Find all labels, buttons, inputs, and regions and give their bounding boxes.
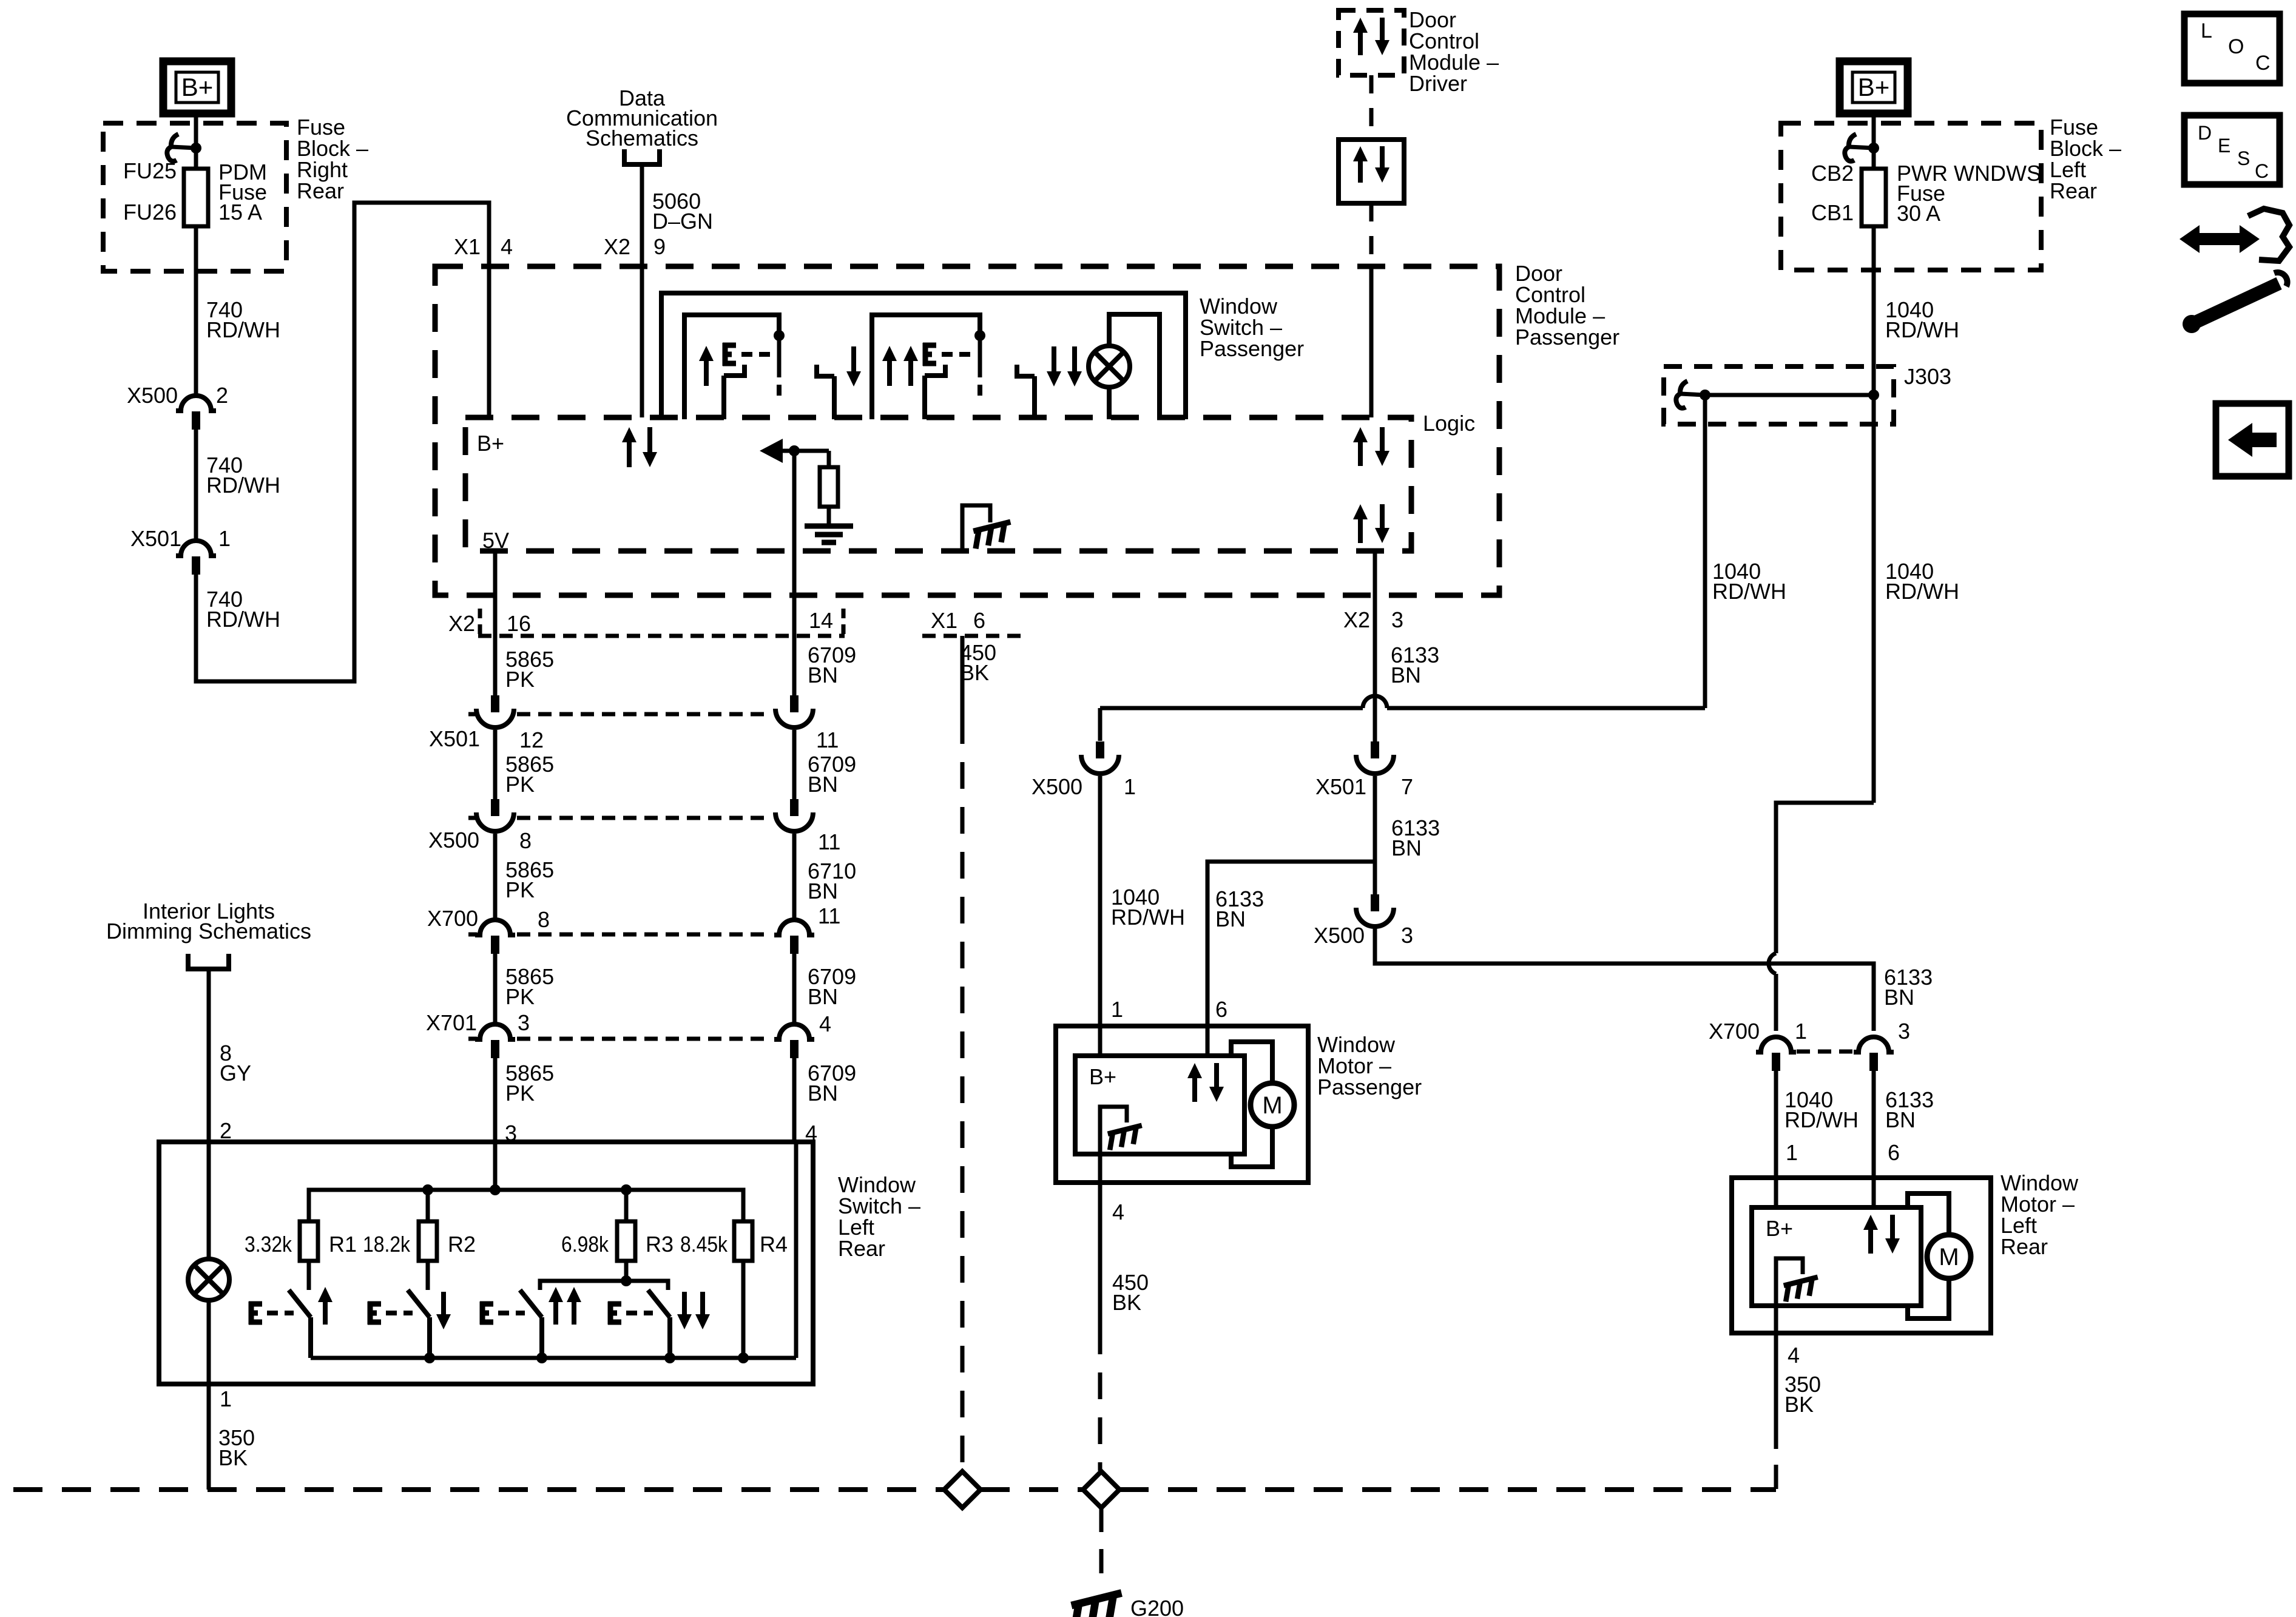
door control module - passenger dashed box bbox=[435, 266, 1499, 595]
connector X700 pin 1 right bbox=[1756, 1037, 1796, 1052]
svg-text:Driver: Driver bbox=[1409, 71, 1467, 96]
resistor top bus bbox=[309, 1190, 743, 1221]
ground G200 bbox=[1069, 1593, 1127, 1617]
dashed wire splice to G200 ground bbox=[1099, 1508, 1104, 1585]
svg-text:X501: X501 bbox=[429, 726, 480, 751]
wire X700-3 to motor pin 6 bbox=[1872, 1071, 1876, 1178]
blade double-down switch bbox=[1017, 365, 1035, 376]
J303 splice wire bbox=[1705, 393, 1874, 397]
R1 bottom stub bbox=[307, 1261, 311, 1290]
J303 hook bbox=[1681, 394, 1705, 395]
svg-text:Rear: Rear bbox=[2050, 178, 2097, 203]
fuse hook FU25/FU26 bbox=[172, 147, 196, 148]
wire logic junction down to pin 14 bbox=[792, 451, 797, 695]
svg-text:D–GN: D–GN bbox=[652, 209, 713, 234]
wire pin 1 350 BK to ground rail bbox=[207, 1384, 211, 1490]
blade double-up switch bbox=[925, 365, 945, 376]
resistor R3 bbox=[624, 1190, 629, 1221]
wire X500-11 to X700-11 bbox=[792, 834, 797, 919]
svg-text:X500: X500 bbox=[1032, 774, 1082, 799]
svg-text:6: 6 bbox=[973, 608, 985, 633]
driver interface solid box bbox=[1339, 140, 1404, 203]
lamp feed wire bbox=[207, 1142, 211, 1259]
logic pull-up resistor with arrow bbox=[760, 439, 783, 463]
window switch - left rear box bbox=[159, 1142, 813, 1384]
svg-text:CB1: CB1 bbox=[1811, 200, 1854, 225]
switch up sub-box bbox=[684, 315, 779, 419]
fuse PDM 15A bbox=[184, 169, 208, 226]
blade down switch bbox=[817, 365, 834, 376]
svg-text:GY: GY bbox=[220, 1061, 251, 1085]
switch up group left rear bbox=[289, 1290, 311, 1317]
double up arrows passenger switch bbox=[887, 358, 892, 386]
circuit breaker PWR WNDWS 30A bbox=[1862, 169, 1886, 226]
connector X500 pin 8 bbox=[491, 799, 499, 816]
svg-text:PK: PK bbox=[505, 667, 535, 692]
switch double-up group left rear bbox=[520, 1290, 542, 1317]
svg-text:CB2: CB2 bbox=[1811, 161, 1854, 186]
wire fuse to X500 pin 2 bbox=[194, 226, 198, 394]
svg-text:PK: PK bbox=[505, 1081, 535, 1106]
chassis ground motor passenger bbox=[1100, 1107, 1127, 1154]
wire X700-8 to X701-3 bbox=[493, 954, 498, 1023]
svg-text:1: 1 bbox=[220, 1386, 232, 1411]
svg-text:Schematics: Schematics bbox=[586, 126, 698, 150]
svg-text:X500: X500 bbox=[1314, 923, 1365, 948]
connector row X700 right dashes bbox=[1797, 1050, 1853, 1054]
svg-text:11: 11 bbox=[818, 903, 840, 928]
svg-text:M: M bbox=[1939, 1244, 1959, 1271]
svg-text:PK: PK bbox=[505, 877, 535, 902]
svg-text:Rear: Rear bbox=[297, 178, 344, 203]
svg-text:16: 16 bbox=[507, 611, 531, 636]
svg-text:C: C bbox=[2255, 160, 2269, 182]
motor loop passenger bbox=[1231, 1042, 1272, 1083]
wire logic to X2-3 (6133) bbox=[1373, 551, 1377, 741]
DESC icon box bbox=[2184, 115, 2280, 184]
svg-text:RD/WH: RD/WH bbox=[1784, 1107, 1859, 1132]
junction J303 dashed box bbox=[1664, 366, 1894, 424]
connector row X700 dashes bbox=[468, 933, 477, 937]
wire J303 main jog left bbox=[1776, 803, 1874, 953]
svg-text:X2: X2 bbox=[1343, 607, 1370, 632]
svg-text:3: 3 bbox=[1898, 1019, 1910, 1044]
window switch - passenger box bbox=[661, 293, 1186, 419]
svg-text:X1: X1 bbox=[931, 608, 957, 633]
svg-text:RD/WH: RD/WH bbox=[206, 607, 280, 632]
dashed wire interface to module bbox=[1369, 203, 1374, 267]
svg-text:3: 3 bbox=[1391, 607, 1403, 632]
module X2 connector row dashes bbox=[478, 634, 845, 638]
connector row X501 dashes bbox=[468, 712, 477, 717]
svg-text:O: O bbox=[2228, 35, 2244, 58]
svg-text:RD/WH: RD/WH bbox=[206, 473, 280, 498]
svg-text:R4: R4 bbox=[760, 1232, 788, 1257]
switch double-down group left rear bbox=[648, 1290, 670, 1317]
wire X700-1 to motor pin 1 bbox=[1774, 1071, 1778, 1178]
svg-text:RD/WH: RD/WH bbox=[206, 317, 280, 342]
connector row X500 dashes bbox=[468, 816, 477, 820]
wire X501-11 to X500-11 bbox=[792, 730, 797, 799]
motor relay inner box bbox=[1075, 1056, 1244, 1154]
fuse block - left rear dashed box bbox=[1781, 123, 2041, 270]
svg-text:X1: X1 bbox=[454, 234, 481, 259]
svg-text:1: 1 bbox=[1795, 1019, 1807, 1044]
wire X501-7 down to junction bbox=[1373, 776, 1377, 862]
up/down arrows in driver box bbox=[1358, 30, 1363, 55]
dashed wire 350 BK to rail bbox=[1774, 1425, 1778, 1490]
connector X701 pin 3 bbox=[475, 1024, 515, 1039]
up/down arrows motor passenger bbox=[1192, 1075, 1197, 1102]
connector X500 pin 1 bbox=[1096, 741, 1104, 758]
wire 8 GY to switch pin 2 bbox=[207, 969, 211, 1142]
svg-text:3: 3 bbox=[518, 1010, 530, 1035]
resistor R4 bbox=[734, 1221, 752, 1261]
svg-text:BN: BN bbox=[1391, 663, 1421, 687]
svg-text:1: 1 bbox=[1111, 997, 1123, 1022]
svg-text:X2: X2 bbox=[448, 611, 475, 636]
svg-text:X500: X500 bbox=[127, 383, 178, 408]
svg-text:BN: BN bbox=[1391, 836, 1422, 860]
svg-text:RD/WH: RD/WH bbox=[1111, 905, 1185, 930]
up/down arrows logic driver lower bbox=[1358, 516, 1363, 543]
wire junction to X500-3 bbox=[1373, 862, 1377, 897]
connector X500 pin 11 bbox=[790, 799, 799, 816]
svg-text:BN: BN bbox=[808, 1081, 838, 1106]
svg-text:S: S bbox=[2237, 147, 2250, 169]
svg-text:X700: X700 bbox=[427, 906, 478, 931]
svg-text:X500: X500 bbox=[428, 828, 479, 852]
motor loop left rear bbox=[1908, 1193, 1949, 1235]
svg-text:8: 8 bbox=[538, 907, 550, 932]
R3 sub-bus to double switches bbox=[624, 1261, 629, 1279]
hop arc 1040 over 6133 bbox=[1769, 953, 1776, 974]
svg-text:FU25: FU25 bbox=[123, 158, 177, 183]
svg-text:2: 2 bbox=[220, 1118, 232, 1143]
wire X1-6 450 BK solid part bbox=[961, 636, 965, 717]
wire pin 6 inside bbox=[1206, 1026, 1210, 1056]
wire pin 1 inside bbox=[1098, 1026, 1102, 1056]
svg-text:X501: X501 bbox=[1315, 774, 1366, 799]
wire X500-2 to X501-1 bbox=[194, 430, 198, 539]
up/down arrows logic driver upper bbox=[1358, 439, 1363, 466]
bracket data communication bbox=[624, 149, 660, 164]
svg-text:PK: PK bbox=[505, 984, 535, 1009]
svg-text:RD/WH: RD/WH bbox=[1885, 579, 1959, 604]
motor relay inner box left rear bbox=[1752, 1207, 1921, 1306]
svg-text:4: 4 bbox=[501, 234, 513, 259]
up/down arrows in interface box bbox=[1358, 158, 1363, 183]
wire pin 1 inside lr bbox=[1774, 1178, 1778, 1207]
svg-text:7: 7 bbox=[1401, 774, 1413, 799]
wire J303 branch across y1167 bbox=[1100, 706, 1363, 711]
connector X501 pin 1 bbox=[176, 541, 216, 556]
window motor - left rear box bbox=[1732, 1178, 1991, 1333]
blade up switch bbox=[724, 365, 745, 376]
svg-text:X701: X701 bbox=[426, 1010, 477, 1035]
svg-text:BN: BN bbox=[1215, 906, 1246, 931]
svg-text:5V: 5V bbox=[482, 528, 509, 553]
wire X500-3 down and right (6133) bbox=[1375, 928, 1874, 1031]
svg-text:BK: BK bbox=[960, 660, 989, 685]
connector X500 pin 2 bbox=[176, 396, 216, 411]
svg-text:BK: BK bbox=[1784, 1392, 1814, 1417]
svg-text:G200: G200 bbox=[1130, 1596, 1184, 1617]
svg-text:Dimming Schematics: Dimming Schematics bbox=[106, 919, 311, 944]
svg-text:PK: PK bbox=[505, 772, 535, 797]
connector X700 pin 8 bbox=[475, 920, 515, 935]
earth ground logic resistor bbox=[805, 524, 853, 529]
dashed wire 450 BK pin4 to splice bbox=[1098, 1328, 1102, 1471]
svg-text:Passenger: Passenger bbox=[1200, 336, 1304, 361]
svg-text:12: 12 bbox=[519, 727, 544, 752]
breaker hook CB2/CB1 bbox=[1849, 147, 1874, 148]
window motor - passenger box bbox=[1056, 1026, 1308, 1183]
down arrow passenger switch bbox=[851, 346, 856, 374]
wire pin14 to X501-11 bbox=[792, 636, 797, 695]
connector X701 pin 4 bbox=[774, 1024, 814, 1039]
wire X501-12 to X500-8 bbox=[493, 730, 498, 799]
wire motor pin 4 down bbox=[1098, 1154, 1102, 1328]
svg-text:BN: BN bbox=[808, 663, 838, 687]
svg-text:X501: X501 bbox=[130, 526, 181, 551]
fuse block - right rear dashed box bbox=[103, 123, 286, 271]
svg-text:RD/WH: RD/WH bbox=[1712, 579, 1786, 604]
wire 5060 D-GN to logic bbox=[640, 164, 644, 417]
svg-text:B+: B+ bbox=[1858, 73, 1890, 101]
switch double-up sub-box bbox=[872, 315, 980, 419]
wire down to X500-1 bbox=[1098, 708, 1102, 741]
connector X501 pin 11 bbox=[790, 695, 799, 712]
R2 bottom stub bbox=[426, 1261, 430, 1290]
svg-text:15 A: 15 A bbox=[218, 200, 262, 224]
svg-text:RD/WH: RD/WH bbox=[1885, 317, 1959, 342]
svg-text:6: 6 bbox=[1888, 1140, 1900, 1165]
tick X2 row left bbox=[478, 609, 482, 635]
power feed B+ box (right) bbox=[1840, 61, 1908, 113]
wire branch to motor pin 6 bbox=[1207, 862, 1375, 1026]
resistor R2 bbox=[426, 1190, 430, 1221]
connector X501 pin 7 bbox=[1371, 741, 1379, 758]
svg-text:4: 4 bbox=[1788, 1343, 1800, 1368]
svg-text:BN: BN bbox=[1885, 1107, 1916, 1132]
svg-text:B+: B+ bbox=[477, 431, 504, 456]
svg-text:1: 1 bbox=[218, 526, 231, 551]
svg-text:R1: R1 bbox=[329, 1232, 357, 1257]
tick X2 row right bbox=[842, 609, 846, 635]
svg-text:11: 11 bbox=[818, 829, 840, 854]
connector X700 pin 11 bbox=[774, 920, 814, 935]
solenoid E double-up switch bbox=[923, 343, 928, 366]
module internal ground for pin X1-6 bbox=[962, 505, 990, 551]
dashed wire driver to interface box bbox=[1369, 75, 1374, 140]
svg-text:B+: B+ bbox=[1766, 1216, 1793, 1241]
svg-text:X2: X2 bbox=[604, 234, 630, 259]
up/down arrows logic data bbox=[627, 439, 632, 467]
switch bottom bus bbox=[311, 1356, 796, 1360]
svg-text:6: 6 bbox=[1215, 997, 1227, 1022]
svg-text:3: 3 bbox=[1401, 923, 1413, 948]
svg-text:4: 4 bbox=[1112, 1200, 1124, 1224]
svg-text:Logic: Logic bbox=[1423, 411, 1475, 436]
wire driver data into logic bbox=[1369, 267, 1374, 417]
svg-text:14: 14 bbox=[809, 608, 833, 633]
wire J303 main down bbox=[1872, 395, 1876, 803]
connector X501 pin 12 bbox=[491, 695, 499, 712]
svg-text:BN: BN bbox=[808, 984, 838, 1009]
door control module - driver dashed box bbox=[1339, 10, 1404, 75]
svg-text:BN: BN bbox=[808, 772, 838, 797]
svg-text:30 A: 30 A bbox=[1897, 201, 1940, 226]
svg-text:3.32k: 3.32k bbox=[245, 1232, 292, 1257]
svg-text:1: 1 bbox=[1786, 1140, 1798, 1165]
svg-text:8: 8 bbox=[519, 828, 532, 853]
svg-text:BN: BN bbox=[808, 879, 838, 903]
power feed B+ box (left) bbox=[163, 61, 231, 113]
junction detent double-up bbox=[974, 330, 985, 341]
connector X700 pin 3 right bbox=[1854, 1037, 1894, 1052]
wire B+ to fuse bbox=[194, 110, 198, 169]
wire B+ to breaker bbox=[1872, 110, 1876, 169]
illumination lamp passenger switch bbox=[1089, 346, 1130, 387]
splice diamond right bbox=[1083, 1471, 1119, 1508]
double down arrows passenger switch bbox=[1052, 346, 1056, 374]
solenoid E up switch bbox=[723, 343, 728, 366]
motor M passenger bbox=[1251, 1083, 1294, 1127]
junction detent up switch bbox=[774, 330, 785, 341]
svg-text:R3: R3 bbox=[646, 1232, 674, 1257]
connector row X701 dashes bbox=[468, 1037, 477, 1041]
wire breaker down to J303 bbox=[1872, 226, 1876, 395]
wire pin 4 into box bbox=[794, 1142, 799, 1358]
wire J303 branch down to y1167 bbox=[1703, 395, 1707, 708]
wire X2-16 to X501-12 bbox=[493, 636, 498, 695]
wire X701-4 to switch pin 4 bbox=[792, 1058, 797, 1142]
svg-text:18.2k: 18.2k bbox=[363, 1232, 411, 1257]
wire pin 6 inside lr bbox=[1872, 1178, 1876, 1207]
illumination lamp left rear switch bbox=[188, 1259, 229, 1300]
svg-text:2: 2 bbox=[216, 383, 228, 408]
svg-text:L: L bbox=[2201, 19, 2212, 42]
svg-text:4: 4 bbox=[819, 1011, 831, 1036]
svg-text:BK: BK bbox=[1112, 1290, 1141, 1315]
svg-text:X700: X700 bbox=[1709, 1019, 1760, 1044]
svg-text:M: M bbox=[1262, 1092, 1282, 1119]
svg-text:B+: B+ bbox=[1089, 1064, 1116, 1089]
up arrow passenger switch bbox=[704, 358, 709, 386]
svg-text:1: 1 bbox=[1124, 774, 1136, 799]
wire X701-3 to switch pin 3 bbox=[493, 1058, 498, 1142]
svg-text:R2: R2 bbox=[448, 1232, 476, 1257]
back arrow icon box bbox=[2216, 403, 2289, 476]
svg-text:11: 11 bbox=[816, 727, 839, 752]
svg-text:Passenger: Passenger bbox=[1515, 325, 1619, 349]
hand with wrench icon bbox=[2180, 225, 2260, 253]
connector X500 pin 3 bbox=[1371, 894, 1379, 911]
svg-text:9: 9 bbox=[653, 234, 666, 259]
LOC icon box bbox=[2184, 14, 2280, 83]
svg-text:E: E bbox=[2218, 135, 2230, 157]
svg-text:Rear: Rear bbox=[2001, 1234, 2048, 1259]
splice diamond left bbox=[944, 1471, 981, 1508]
logic dashed box bbox=[465, 417, 1411, 551]
wire pin 3 into box bbox=[493, 1142, 498, 1190]
svg-text:FU26: FU26 bbox=[123, 200, 177, 224]
svg-text:B+: B+ bbox=[181, 73, 214, 101]
svg-text:C: C bbox=[2255, 52, 2271, 75]
bracket interior lights bbox=[188, 954, 229, 969]
svg-text:BN: BN bbox=[1884, 985, 1914, 1010]
motor M left rear bbox=[1927, 1235, 1971, 1278]
up/down arrows motor left rear bbox=[1868, 1227, 1873, 1254]
ground rail dashed G200 bbox=[13, 1487, 944, 1492]
svg-text:D: D bbox=[2198, 122, 2212, 144]
dashed wire 450 BK to splice bbox=[961, 717, 965, 1471]
svg-text:J303: J303 bbox=[1904, 364, 1951, 389]
wire motor lr pin 4 down bbox=[1774, 1306, 1778, 1425]
svg-text:8.45k: 8.45k bbox=[680, 1232, 728, 1257]
wire X500-1 to motor pin 1 bbox=[1098, 776, 1102, 1026]
svg-text:Rear: Rear bbox=[838, 1236, 885, 1261]
resistor R1 bbox=[300, 1221, 318, 1261]
wire X700-11 to X701-4 bbox=[792, 954, 797, 1023]
svg-text:6.98k: 6.98k bbox=[561, 1232, 609, 1257]
chassis ground motor left rear bbox=[1776, 1258, 1803, 1306]
switch down group left rear bbox=[408, 1290, 430, 1317]
wire X500-8 to X700-8 bbox=[493, 834, 498, 919]
wire 5V down to X2-16 bbox=[493, 551, 498, 695]
lamp to pin 1 wire bbox=[207, 1300, 211, 1384]
svg-text:BK: BK bbox=[218, 1445, 248, 1470]
wire X501-1 down and around to module X1-4 bbox=[196, 203, 489, 681]
svg-text:Passenger: Passenger bbox=[1317, 1075, 1422, 1099]
